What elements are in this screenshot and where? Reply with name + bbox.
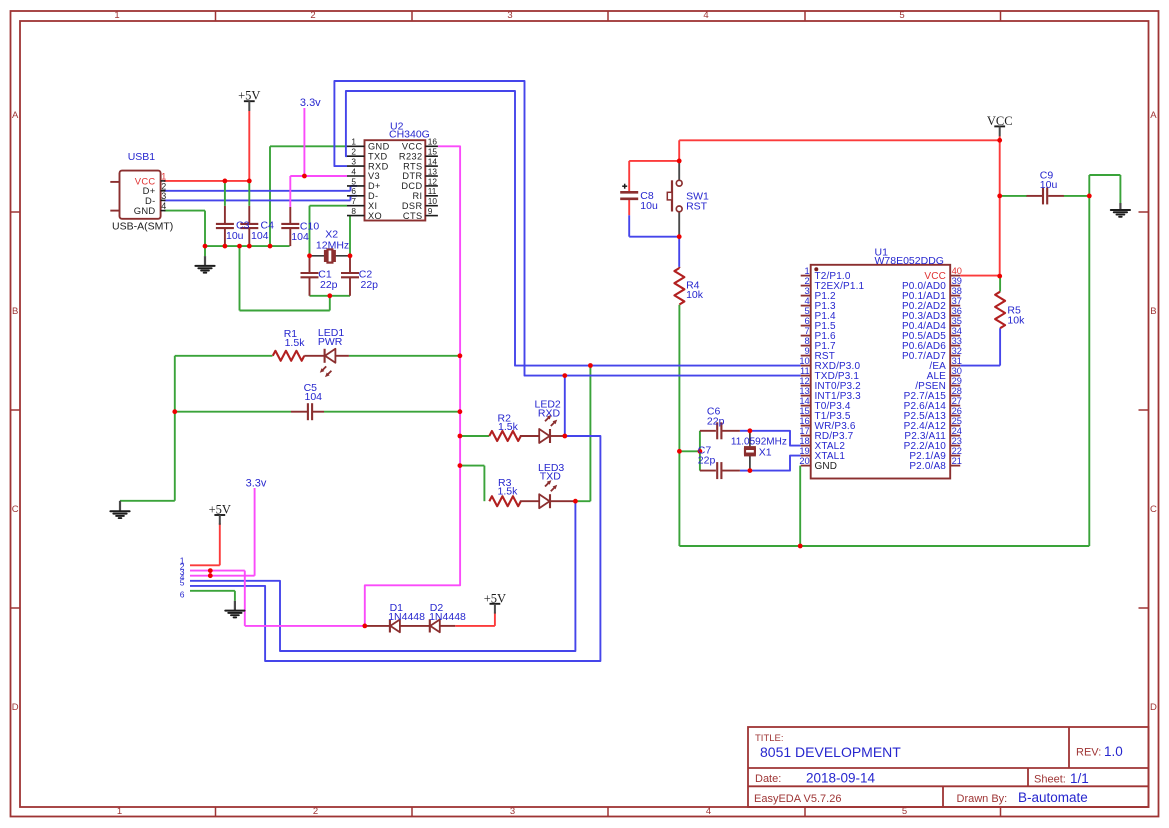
svg-text:3: 3 xyxy=(805,286,810,296)
svg-text:13: 13 xyxy=(428,166,438,176)
svg-text:30: 30 xyxy=(952,366,962,376)
svg-text:5: 5 xyxy=(351,176,356,186)
svg-text:Drawn By:: Drawn By: xyxy=(957,793,1008,805)
svg-text:C: C xyxy=(1150,504,1157,515)
svg-text:15: 15 xyxy=(799,406,809,416)
svg-text:B: B xyxy=(1150,306,1156,317)
svg-text:D: D xyxy=(12,702,19,713)
svg-text:V3: V3 xyxy=(368,171,380,181)
svg-text:RTS: RTS xyxy=(403,161,422,171)
svg-text:4: 4 xyxy=(706,806,711,817)
svg-text:TXD: TXD xyxy=(540,470,561,482)
svg-text:4: 4 xyxy=(161,201,166,211)
svg-text:8051 DEVELOPMENT: 8051 DEVELOPMENT xyxy=(760,744,901,760)
svg-text:34: 34 xyxy=(952,326,962,336)
svg-text:10u: 10u xyxy=(640,200,658,212)
svg-text:13: 13 xyxy=(799,386,809,396)
svg-text:D-: D- xyxy=(368,191,379,201)
svg-text:10u: 10u xyxy=(226,230,244,242)
svg-text:B: B xyxy=(12,306,18,317)
svg-text:36: 36 xyxy=(952,306,962,316)
svg-text:10k: 10k xyxy=(1007,314,1025,326)
svg-text:TXD: TXD xyxy=(368,151,388,161)
svg-text:33: 33 xyxy=(952,336,962,346)
svg-text:3.3v: 3.3v xyxy=(300,97,321,109)
svg-text:REV:: REV: xyxy=(1076,747,1101,759)
svg-text:7: 7 xyxy=(805,326,810,336)
svg-text:USB-A(SMT): USB-A(SMT) xyxy=(112,221,173,233)
svg-text:20: 20 xyxy=(799,456,809,466)
svg-text:39: 39 xyxy=(952,276,962,286)
svg-text:RST: RST xyxy=(686,201,708,213)
svg-text:B-automate: B-automate xyxy=(1018,790,1088,805)
svg-text:10: 10 xyxy=(428,196,438,206)
svg-text:2018-09-14: 2018-09-14 xyxy=(806,771,876,786)
svg-text:USB1: USB1 xyxy=(128,151,156,163)
svg-text:GND: GND xyxy=(134,205,156,216)
svg-text:2: 2 xyxy=(805,276,810,286)
svg-text:GND: GND xyxy=(368,142,390,152)
svg-text:32: 32 xyxy=(952,346,962,356)
svg-text:C: C xyxy=(12,504,19,515)
svg-text:25: 25 xyxy=(952,416,962,426)
svg-text:22p: 22p xyxy=(320,279,338,291)
svg-text:TITLE:: TITLE: xyxy=(755,733,784,744)
svg-text:1: 1 xyxy=(161,172,166,182)
svg-text:3.3v: 3.3v xyxy=(246,478,267,490)
svg-text:104: 104 xyxy=(251,230,269,242)
svg-text:40: 40 xyxy=(952,266,962,276)
svg-text:4: 4 xyxy=(351,166,356,176)
svg-text:Date:: Date: xyxy=(755,773,781,785)
svg-text:10k: 10k xyxy=(686,289,704,301)
svg-text:VCC: VCC xyxy=(402,142,423,152)
svg-text:9: 9 xyxy=(428,206,433,216)
svg-text:VCC: VCC xyxy=(987,114,1013,128)
svg-text:8: 8 xyxy=(351,206,356,216)
svg-text:A: A xyxy=(12,110,19,121)
svg-text:2: 2 xyxy=(313,806,318,817)
svg-text:11: 11 xyxy=(428,186,437,196)
svg-text:3: 3 xyxy=(351,157,356,167)
svg-text:1.5k: 1.5k xyxy=(498,485,519,497)
svg-text:4: 4 xyxy=(703,10,708,21)
svg-text:RI: RI xyxy=(413,191,423,201)
svg-text:37: 37 xyxy=(952,296,962,306)
svg-text:27: 27 xyxy=(952,396,962,406)
svg-text:104: 104 xyxy=(305,391,323,403)
svg-text:3: 3 xyxy=(507,10,512,21)
svg-text:23: 23 xyxy=(952,436,962,446)
svg-text:24: 24 xyxy=(952,426,962,436)
svg-text:PWR: PWR xyxy=(318,336,343,348)
svg-text:16: 16 xyxy=(799,416,809,426)
svg-text:22p: 22p xyxy=(698,454,716,466)
svg-text:12: 12 xyxy=(799,376,809,386)
svg-text:W78E052DDG: W78E052DDG xyxy=(875,255,944,267)
svg-text:1.0: 1.0 xyxy=(1104,744,1123,759)
svg-text:2: 2 xyxy=(161,182,166,192)
svg-text:EasyEDA V5.7.26: EasyEDA V5.7.26 xyxy=(754,793,841,805)
svg-text:10: 10 xyxy=(799,356,809,366)
svg-text:1: 1 xyxy=(114,10,119,21)
svg-text:1.5k: 1.5k xyxy=(285,337,306,349)
svg-text:7: 7 xyxy=(351,196,356,206)
svg-text:5: 5 xyxy=(899,10,904,21)
svg-text:1.5k: 1.5k xyxy=(498,421,519,433)
svg-text:9: 9 xyxy=(805,346,810,356)
svg-text:R232: R232 xyxy=(399,151,423,161)
svg-text:6: 6 xyxy=(351,186,356,196)
svg-text:28: 28 xyxy=(952,386,962,396)
svg-text:21: 21 xyxy=(952,456,962,466)
svg-text:XO: XO xyxy=(368,211,382,221)
svg-text:11: 11 xyxy=(800,366,810,376)
svg-text:XI: XI xyxy=(368,201,377,211)
svg-text:4: 4 xyxy=(805,296,810,306)
svg-text:12: 12 xyxy=(428,176,438,186)
svg-text:5: 5 xyxy=(805,306,810,316)
svg-text:3: 3 xyxy=(161,191,166,201)
svg-text:1N4448: 1N4448 xyxy=(388,611,425,623)
svg-text:+5V: +5V xyxy=(484,591,506,605)
svg-text:14: 14 xyxy=(428,157,438,167)
svg-text:22p: 22p xyxy=(361,279,379,291)
svg-text:DTR: DTR xyxy=(402,171,422,181)
svg-text:8: 8 xyxy=(805,336,810,346)
svg-text:P2.0/A8: P2.0/A8 xyxy=(909,461,946,472)
svg-text:CTS: CTS xyxy=(403,211,423,221)
svg-text:D+: D+ xyxy=(368,181,381,191)
svg-text:6: 6 xyxy=(805,316,810,326)
svg-text:22: 22 xyxy=(952,446,962,456)
svg-text:Sheet:: Sheet: xyxy=(1034,774,1066,786)
svg-text:2: 2 xyxy=(351,147,356,157)
svg-text:26: 26 xyxy=(952,406,962,416)
svg-text:+5V: +5V xyxy=(209,503,231,517)
svg-text:104: 104 xyxy=(291,231,309,243)
svg-text:A: A xyxy=(1150,110,1157,121)
svg-text:19: 19 xyxy=(799,446,809,456)
svg-text:X1: X1 xyxy=(759,446,772,458)
svg-text:14: 14 xyxy=(799,396,809,406)
svg-text:31: 31 xyxy=(952,356,962,366)
svg-text:1: 1 xyxy=(805,266,810,276)
svg-text:RXD: RXD xyxy=(538,407,561,419)
svg-text:RXD: RXD xyxy=(368,161,389,171)
svg-text:GND: GND xyxy=(815,461,838,472)
svg-text:DCD: DCD xyxy=(401,181,422,191)
svg-text:38: 38 xyxy=(952,286,962,296)
svg-text:D: D xyxy=(1150,702,1157,713)
svg-text:1: 1 xyxy=(117,806,122,817)
svg-text:12MHz: 12MHz xyxy=(316,239,349,251)
svg-text:17: 17 xyxy=(799,426,809,436)
svg-text:2: 2 xyxy=(310,10,315,21)
svg-text:18: 18 xyxy=(799,436,809,446)
svg-text:1N4448: 1N4448 xyxy=(429,611,466,623)
svg-text:+5V: +5V xyxy=(238,89,260,103)
svg-text:3: 3 xyxy=(510,806,515,817)
svg-text:1/1: 1/1 xyxy=(1070,771,1089,786)
svg-text:15: 15 xyxy=(428,147,438,157)
svg-text:1: 1 xyxy=(351,137,356,147)
svg-text:22p: 22p xyxy=(707,415,725,427)
svg-text:DSR: DSR xyxy=(402,201,423,211)
svg-text:5: 5 xyxy=(180,577,185,587)
svg-text:29: 29 xyxy=(952,376,962,386)
svg-text:35: 35 xyxy=(952,316,962,326)
svg-text:CH340G: CH340G xyxy=(389,129,430,141)
svg-text:10u: 10u xyxy=(1040,179,1058,191)
svg-text:6: 6 xyxy=(180,589,185,599)
